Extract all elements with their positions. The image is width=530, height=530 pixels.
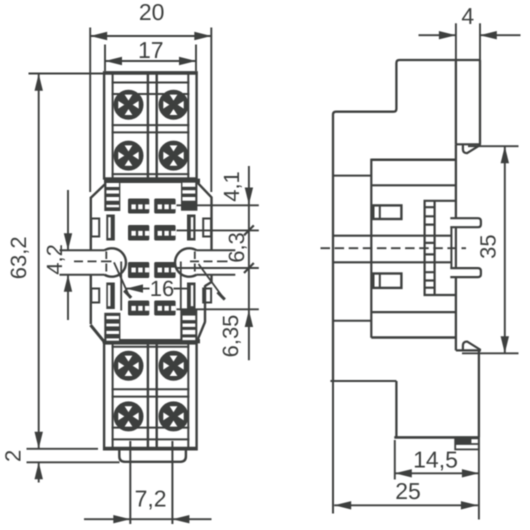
hex top-right chamfer [198,183,212,198]
dim 14,5 arrow left [395,469,412,477]
screw B4 [160,403,188,431]
clamp bar top-right slit [191,217,194,238]
dim 4,2 lower shaft [67,275,69,320]
interior line y235.7 [333,235,451,237]
screw A1 [115,91,143,119]
side outline left profile [333,60,480,381]
bottom block rail 3 [112,396,190,398]
dim 16 line [126,288,188,290]
foot detail box [455,438,479,449]
comb left rail [424,201,426,295]
side lower right edge [478,350,480,437]
clamp bar top-right [187,215,196,241]
top terminal block outer body [104,72,197,178]
foot detail fill [455,438,470,444]
dim 25 arrow left [334,501,351,509]
pin hole rect upper [373,205,401,219]
dim 20 ext right [210,28,212,193]
clamp bar bottom-left [106,283,115,310]
top block rail 4 [112,131,190,133]
dim 63,2 arrow bottom [35,432,43,449]
top block inner right wall [187,74,189,179]
row ext line 1 [177,204,259,206]
comb rungs [425,207,435,288]
dim 17 ext left [104,45,106,72]
oblique tick row2 [244,225,254,235]
row ext line 4 [177,308,259,310]
pin hole upper divider [379,205,381,219]
bottom block center divider left line [147,343,149,448]
dim 20 arrow left [90,32,107,40]
relay face edge upper [455,144,457,218]
contact slot row3 right [154,262,175,278]
svg-text:25: 25 [395,478,421,504]
clamp bar top-left [106,215,115,241]
dim 6,35 arrow up [245,310,253,327]
notch top-right [203,219,211,237]
pin hole rect lower [373,274,401,288]
dim 4 arrow left [439,31,456,39]
hex section top bar (thick) [104,179,200,183]
notch bottom-left [91,289,99,303]
interior line y159.8 [371,159,456,162]
dim 35 arrow top [501,146,509,163]
svg-text:17: 17 [138,37,164,63]
contact slot row2 left [128,225,149,241]
hatch ladder bottom-right [180,310,197,342]
dim 25 arrow right [461,501,478,509]
right ear centerline dashes [190,260,228,262]
hex right edge lower [204,286,206,323]
top terminal block top edge (thick) [103,72,198,75]
bottom hook shelf [456,349,481,351]
interior vertical x371.3 [370,159,372,338]
comb right rail [434,201,436,295]
contact slot row4 right [154,301,175,316]
SIDE VIEW [321,60,481,449]
dim 2 ext line1 [27,448,99,450]
dim 17 line [105,60,196,62]
dim 4 ext left [455,23,457,60]
clip bar outer line [455,227,457,268]
clip bar inner line [450,227,452,268]
side top tab left edge [455,60,457,144]
bottom block rail 2 [112,388,190,390]
dim 35 line [504,146,506,353]
clamp bar bottom-right slit [191,285,194,306]
bottom step line [330,380,396,382]
svg-text:4,1: 4,1 [219,171,244,202]
dim 17 arrow left [105,57,122,65]
right leader tick [218,292,225,299]
svg-text:7,2: 7,2 [135,485,167,511]
dim 14,5 line [395,472,479,474]
left ear arc [105,248,126,276]
dim 7,2 arrow left [113,515,130,523]
top block rail 5 [112,173,190,175]
screw A3 [115,142,143,170]
top block center divider right line [155,73,157,179]
svg-text:6,3: 6,3 [224,232,249,263]
interior line y312.1 [371,311,456,313]
row ext line 2 [177,229,259,231]
row ext line 3 [177,267,259,269]
svg-text:63,2: 63,2 [6,236,31,279]
bottom block inner left wall [112,343,114,447]
svg-text:35: 35 [476,234,501,258]
top block center divider left line [147,73,149,179]
screw B1 [115,352,143,380]
interior line y185.3 [371,184,456,186]
svg-text:2: 2 [0,450,25,462]
shared right ext [478,437,480,519]
right ear bottom line [197,274,236,276]
clamp bar bottom-right [187,283,196,310]
svg-text:4: 4 [461,3,474,29]
FRONT VIEW [60,72,236,462]
hex left edge lower [90,275,92,324]
left leader tick [124,291,131,298]
relay face edge lower [455,277,457,350]
notch top-left [91,219,99,237]
bottom block center divider right line [155,343,157,448]
hex right chamfer small [205,282,212,286]
dim 2 arrow up [35,462,43,479]
bottom terminal block outer body [104,343,197,449]
dim 63,2 arrow top [35,74,43,91]
hex right edge mid [210,275,212,283]
dim 7,2 ext-pin right [171,441,173,524]
clip bottom pin [450,268,481,277]
dim 16 arrow [126,284,143,292]
dim 20 line [90,35,211,37]
bottom block inner right wall [187,343,189,447]
hex right edge upper [210,197,212,250]
side top tab right edge [479,60,481,144]
dim 17 ext right [195,45,197,72]
screw B2 [160,352,188,380]
hatch ladder top-right [181,181,197,211]
dim 14,5 ext left [394,440,396,480]
dim 14,5 arrow right [462,469,479,477]
slot dots [131,204,175,310]
hex bottom-left chamfer [91,325,105,342]
svg-text:14,5: 14,5 [413,447,458,473]
top block rail 2 [112,93,190,95]
dim 35 ext top [468,145,519,147]
hex bottom-right chamfer [198,322,205,340]
right leader diagonal [199,264,225,300]
interior line y320.7 [333,320,371,322]
bottom block rail 1 [112,346,190,348]
hex top-left chamfer [91,183,107,198]
side centerline dashed [321,247,467,249]
clip top pin [450,218,481,227]
dim 2 arrow up shaft [38,462,40,482]
bottom protrusion [119,450,186,462]
screw B3 [115,403,143,431]
dim 4,2 arrow up [64,275,72,292]
dim 4,2 arrow down [64,233,72,250]
top block rail 1 [112,82,190,84]
dim 7,2 ext-pin left [129,441,131,524]
left ear centerline dashes [74,260,112,262]
interior line y175.6 [333,175,371,177]
left ear bottom line [60,274,105,276]
left leader diagonal [114,262,130,298]
bottom step edge [395,381,397,437]
comb bottom cap [424,294,457,296]
foot detail divider [455,438,479,444]
dim 4 line left [419,34,456,36]
contact slot row1 right [154,199,175,214]
dim 35 arrow bottom [501,336,509,353]
top hook shelf [456,143,481,145]
dim 4 arrow right [480,31,497,39]
dim 4,1 arrow down [245,188,253,205]
inner vertical left [120,262,122,311]
screw A2 [160,91,188,119]
dim 35 ext bottom [462,352,519,354]
hex left edge upper [90,197,92,250]
interior line y262.3 [333,261,451,263]
inner vertical right [180,262,182,311]
screw A4 [160,142,188,170]
contact slot row1 left [128,199,149,214]
top block rail 3 [112,124,190,126]
svg-text:6,35: 6,35 [218,315,243,358]
top hook claw [463,144,481,153]
clamp bar top-left slit [108,217,111,238]
dim 4,2 upper shaft [67,190,69,250]
side bottom edge [394,436,479,439]
bottom hook claw [463,342,481,351]
left ear vertical dash [105,252,107,272]
dim 17 arrow right [179,57,196,65]
hatch ladder top-left [104,181,120,211]
oblique tick row3 [244,263,254,273]
dim 7,2 arrow right [172,515,189,523]
interior line y337.5 [371,336,456,339]
bottom block rail 4 [112,427,190,429]
dim 4 ext right [479,23,481,60]
dim 25 ext left [332,381,334,514]
hatch ladder bottom-left [104,313,120,342]
right ear top line [197,249,236,251]
hex section bottom bar (thick) [103,339,201,343]
dim 25 line [334,504,478,506]
dim 20 ext left [89,28,91,193]
right ear arc [175,248,196,276]
comb top cap [424,200,456,202]
svg-text:4,2: 4,2 [42,244,67,275]
dim 20 arrow right [194,32,211,40]
contact slot row3 left [128,262,149,278]
dim 7,2 line [84,518,212,520]
svg-text:16: 16 [150,276,174,301]
right dim vertical [248,166,250,360]
pin hole lower divider [379,274,381,288]
top block inner left wall [112,74,114,179]
bottom block bottom edge thick [104,447,197,450]
contact slot row4 left [128,301,149,316]
svg-text:20: 20 [139,0,165,25]
dim 4 line right [480,34,521,36]
notch bottom-right [203,289,211,303]
contact slot row2 right [154,225,175,241]
bottom block rail 5 [112,438,190,440]
clamp bar bottom-left slit [108,285,111,306]
dim 63,2 top ext [29,73,104,75]
dim 63,2 line [38,74,40,449]
dim 2 ext line2 [27,461,120,463]
left ear top line [60,249,105,251]
right ear vertical dash [194,252,196,272]
